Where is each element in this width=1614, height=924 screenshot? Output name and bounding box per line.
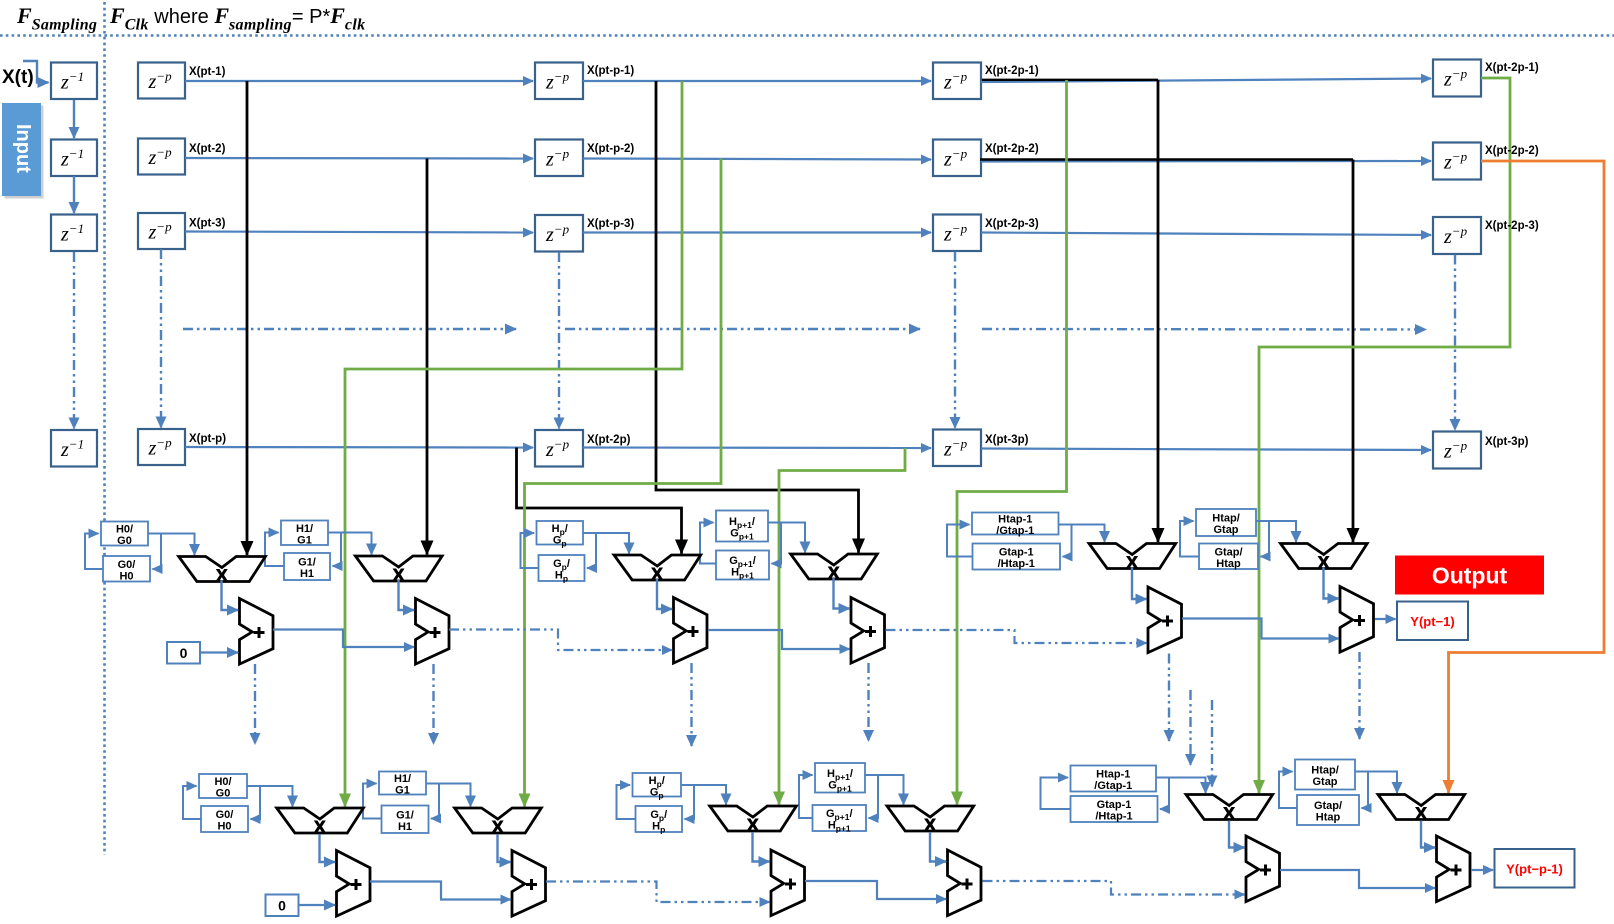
coefficient box Gtap-1/Htap-1 (top) [973, 544, 1061, 571]
coef pair 1 top feedback left [85, 534, 103, 570]
adder S5 [1148, 587, 1182, 653]
adder S3 [674, 598, 708, 664]
coef pair 3 bottom feedback right [681, 785, 694, 819]
dash-dot wire SB2 to SB3 [546, 882, 770, 903]
svg-text:X(pt-p-1): X(pt-p-1) [587, 65, 634, 77]
multiplier M4 [791, 554, 878, 582]
coef pair 6 top feedback right [1256, 521, 1269, 557]
coef pair 4 top feedback right [768, 523, 781, 564]
wire row3 C3 to D3 X(pt-2p-3) [981, 233, 1431, 236]
delay register Z2 (z^-1) [51, 140, 97, 177]
svg-text:H1: H1 [398, 821, 412, 833]
svg-text:Y(pt−p-1): Y(pt−p-1) [1506, 862, 1563, 877]
wire MB4 to SB4 [930, 832, 946, 862]
wire Htap-1/Gtap-1 to multiplier MB5 [1156, 778, 1206, 794]
dash-dot wire S3 down to bottom bank [690, 663, 692, 746]
wire H0/G0 to multiplier MB1 [247, 786, 293, 807]
coefficient box H0/G0 (top) [101, 522, 148, 548]
coefficient box Gtap/Htap (top) [1199, 544, 1258, 570]
black tap TA row1 to multiplier M4 [656, 81, 859, 553]
black tap T6 row2 to multiplier M6 [1352, 160, 1355, 543]
svg-text:Htap: Htap [1216, 558, 1241, 570]
wire M1 to S1 [222, 581, 239, 611]
dash-dot ellipsis wire into MB5 (a) [1189, 690, 1191, 765]
svg-text:X(pt-p): X(pt-p) [189, 433, 226, 445]
adder SB5 [1246, 836, 1280, 902]
coef pair 5 bottom feedback right [1156, 778, 1169, 810]
wire row3 A3 to B3 X(pt-3) [185, 232, 533, 233]
multiplier M3 [614, 555, 701, 583]
wire MB2 to SB2 [498, 834, 511, 862]
black tap wire row2 C2 output to tap T6 [980, 158, 1353, 160]
svg-text:Gtap: Gtap [1312, 776, 1337, 788]
dash-dot wire Z3 to Z4 (continuation) [73, 252, 75, 429]
wire M5 to S5 [1132, 568, 1147, 600]
delay block D1 (z^-p) [1433, 60, 1481, 97]
delay block B2 (z^-p) [535, 140, 583, 177]
svg-text:X(pt-2p-3): X(pt-2p-3) [1485, 220, 1539, 232]
output box Y(pt-p-1) [1495, 849, 1575, 888]
multiplier MB2 [455, 808, 542, 836]
wire H0/G0 to multiplier M1 [148, 534, 195, 556]
svg-text:/Htap-1: /Htap-1 [998, 558, 1035, 570]
delay block D4 (z^-p) [1433, 432, 1481, 469]
svg-text:X(pt-2p): X(pt-2p) [587, 434, 631, 446]
delay block A4 (z^-p) [138, 429, 185, 465]
wire S1 to S2 [273, 630, 414, 648]
wire row4 A4 to B4 X(pt-p) [185, 446, 533, 449]
coefficient box G0/H0 (top) [103, 556, 150, 582]
coefficient box H1/G1 (top) [281, 521, 328, 547]
coefficient box Hp+1/Gp+1 (bottom) [815, 763, 865, 793]
green tap G3 row4 to bottom multiplier MB3 [779, 448, 905, 805]
delay register Z3 (z^-1) [51, 215, 97, 252]
coefficient box Gp+1/Hp+1 (top) [716, 551, 769, 581]
wire row1 B1 to C1 X(pt-p-1) [583, 80, 931, 82]
delay block D2 (z^-p) [1433, 143, 1481, 180]
wire row1 C1 to D1 X(pt-2p-1) [981, 79, 1431, 83]
dash-dot ellipsis wire into MB5 (b) [1211, 700, 1213, 787]
svg-text:H0: H0 [217, 821, 231, 833]
svg-text:G1/: G1/ [396, 809, 414, 821]
coef pair 5 top feedback left [947, 525, 973, 557]
wire H1/G1 to multiplier M2 [328, 533, 372, 555]
wire MB6 to SB6 [1421, 821, 1435, 848]
green tap G2 row2 to bottom multiplier MB2 [525, 159, 722, 807]
black tap wire row1 C1 output to tap T5 [982, 79, 1158, 81]
svg-text:H0/: H0/ [116, 524, 133, 536]
adder SB1 [337, 851, 371, 917]
dash-dot wire S4 down to bottom bank [867, 663, 869, 741]
svg-text:X(pt-2p-3): X(pt-2p-3) [985, 218, 1039, 230]
dash-dot wire B3 to B4 [558, 252, 560, 429]
svg-text:G0: G0 [117, 535, 132, 547]
dash-dot wire SB4 to SB5 [983, 881, 1245, 895]
coef pair 2 top feedback left [265, 533, 284, 567]
multiplier MB1 [277, 808, 364, 836]
delay block C1 (z^-p) [933, 63, 981, 100]
delay block B3 (z^-p) [535, 215, 583, 252]
delay block B4 (z^-p) [535, 430, 583, 467]
wire Hp+1/Gp+1 to multiplier MB4 [865, 775, 904, 805]
wire MB1 to SB1 [320, 834, 336, 862]
svg-text:H0: H0 [119, 570, 133, 582]
svg-text:X: X [1415, 804, 1427, 823]
wire zero box to S1 [200, 651, 238, 653]
wire Hp/Gp to multiplier MB3 [681, 785, 726, 805]
svg-text:X(pt-2p-2): X(pt-2p-2) [1485, 145, 1539, 157]
adder SB4 [948, 850, 982, 916]
coef pair 5 bottom feedback left [1041, 778, 1071, 810]
wire row1 A1 to B1 X(pt-1) [185, 80, 533, 82]
wire X(t) input elbow into Z1 [23, 61, 49, 83]
vertical dotted domain separator [103, 2, 106, 855]
dash-dot wire S4 to S5 [886, 630, 1147, 643]
wire M6 to S6 [1324, 568, 1339, 599]
black tap T5 row1 to multiplier M5 [1157, 80, 1160, 542]
coefficient box H1/G1 (bottom) [379, 772, 426, 797]
adder SB6 [1437, 836, 1471, 902]
Output banner (red) [1395, 556, 1544, 595]
svg-text:Gtap/: Gtap/ [1314, 800, 1342, 812]
coefficient box Hp+1/Gp+1 (top) [716, 511, 768, 542]
delay register Z4 (z^-1) [51, 430, 97, 467]
coef pair 2 top feedback right [328, 533, 341, 567]
coefficient box G1/H1 (bottom) [382, 806, 429, 834]
coef pair 5 top feedback right [1059, 525, 1072, 557]
Input banner box [2, 103, 44, 199]
multiplier M1 [179, 557, 266, 585]
svg-text:0: 0 [180, 645, 188, 661]
svg-text:X(pt-p-3): X(pt-p-3) [587, 218, 634, 230]
coefficient box G0/H0 (bottom) [201, 806, 248, 833]
coefficient box H0/G0 (bottom) [199, 774, 247, 800]
wire SB3 to SB4 [805, 881, 946, 899]
wire Z2 to Z3 [73, 176, 75, 213]
wire row2 B2 to C2 X(pt-p-2) [583, 159, 931, 160]
orange tap D2 output to bottom multiplier MB6 [1449, 161, 1605, 793]
svg-text:/Htap-1: /Htap-1 [1095, 811, 1132, 823]
multiplier MB5 [1186, 795, 1273, 823]
dash-dot wire S5 down to bottom bank [1168, 654, 1170, 742]
svg-text:G1: G1 [297, 534, 312, 546]
multiplier M5 [1089, 544, 1176, 572]
svg-text:Htap/: Htap/ [1212, 513, 1240, 525]
coef pair 3 top feedback right [583, 533, 596, 568]
svg-text:X: X [747, 815, 759, 834]
svg-text:Gtap-1: Gtap-1 [1097, 799, 1132, 811]
green tap G4 row1 to bottom multiplier MB4 [957, 80, 1067, 805]
multiplier MB6 [1378, 795, 1465, 823]
adder S4 [851, 598, 885, 664]
svg-text:Htap/: Htap/ [1311, 765, 1339, 777]
svg-text:G1: G1 [395, 785, 410, 797]
svg-text:FClk where Fsampling= P*Fclk: FClk where Fsampling= P*Fclk [109, 3, 365, 34]
delay block C4 (z^-p) [933, 430, 981, 467]
wire row2 A2 to B2 X(pt-2) [185, 157, 533, 160]
delay block B1 (z^-p) [535, 63, 583, 100]
svg-text:G0/: G0/ [216, 809, 234, 821]
wire Hp+1/Gp+1 to multiplier M4 [768, 523, 805, 553]
coef pair 3 bottom feedback left [617, 785, 636, 819]
coef pair 6 bottom feedback right [1355, 772, 1368, 809]
svg-text:X: X [492, 817, 504, 836]
svg-text:Output: Output [1432, 563, 1508, 589]
svg-text:H1/: H1/ [394, 773, 411, 785]
multiplier M6 [1281, 544, 1368, 572]
dash-dot wire S2 down to bottom bank [432, 664, 434, 744]
delay block C3 (z^-p) [933, 215, 981, 252]
green tap G5 D1 output to bottom multiplier MB5 [1259, 78, 1510, 793]
zero constant box (bottom bank) [266, 895, 299, 917]
wire Z1 to Z2 [73, 100, 75, 138]
wire Htap/Gtap to multiplier M6 [1256, 521, 1296, 542]
svg-text:FSampling: FSampling [16, 3, 97, 34]
coef pair 3 top feedback left [521, 533, 539, 568]
svg-text:X(pt-3p): X(pt-3p) [1485, 436, 1529, 448]
delay block C2 (z^-p) [933, 140, 981, 177]
zero constant box (top bank) [167, 642, 200, 664]
dash-dot ellipsis row segment A-B [183, 328, 516, 330]
wire S5 to S6 [1182, 619, 1339, 639]
svg-text:X(t): X(t) [2, 67, 34, 88]
coef pair 2 bottom feedback left [363, 784, 382, 819]
coefficient box Gp+1/Hp+1 (bottom) [813, 805, 867, 834]
dash-dot wire D3 to D4 [1454, 255, 1456, 431]
wire row4 C4 to D4 X(pt-3p) [981, 449, 1431, 451]
wire SB5 to SB6 [1280, 870, 1435, 888]
coefficient box Gp/Hp (top) [539, 555, 585, 584]
coefficient box Htap-1/Gtap-1 (top) [972, 513, 1059, 538]
coef pair 4 bottom feedback right [865, 775, 878, 818]
coef pair 6 top feedback left [1180, 521, 1199, 557]
coef pair 2 bottom feedback right [426, 784, 439, 819]
svg-text:/Gtap-1: /Gtap-1 [996, 525, 1034, 537]
wire row3 B3 to C3 X(pt-p-3) [583, 231, 931, 233]
wire Htap/Gtap to multiplier MB6 [1355, 772, 1397, 794]
svg-text:H0/: H0/ [214, 776, 231, 788]
delay register Z1 (z^-1) [51, 63, 97, 100]
wire M3 to S3 [657, 579, 672, 609]
coef pair 4 bottom feedback left [799, 775, 813, 818]
wire S3 to S4 [708, 630, 850, 649]
multiplier MB3 [710, 806, 797, 834]
wire M2 to S2 [399, 580, 415, 610]
coef pair 4 top feedback left [700, 523, 716, 564]
black tap T1 row1 to multiplier M1 [246, 81, 249, 555]
svg-text:X: X [314, 817, 326, 836]
wire M4 to S4 [834, 578, 850, 609]
dash-dot wire S2 to S3 [449, 630, 672, 651]
dash-dot wire C3 to C4 [954, 252, 956, 429]
svg-text:X(pt-3p): X(pt-3p) [985, 434, 1029, 446]
svg-text:X: X [924, 815, 936, 834]
dash-dot wire S6 down to bottom bank [1358, 652, 1360, 739]
coefficient box G1/H1 (top) [284, 553, 330, 580]
green tap G1 row1 to bottom multiplier MB1 [345, 81, 682, 807]
wire SB6 to output Y(pt-p-1) [1471, 869, 1493, 871]
delay block A3 (z^-p) [138, 213, 185, 249]
wire zero box to SB1 [299, 904, 336, 906]
svg-text:Htap-1: Htap-1 [1096, 769, 1130, 781]
wire Hp/Gp to multiplier M3 [583, 533, 629, 554]
svg-text:Htap: Htap [1316, 812, 1341, 824]
coef pair 1 top feedback right [148, 534, 161, 570]
svg-text:Gtap/: Gtap/ [1214, 546, 1242, 558]
svg-text:G0/: G0/ [118, 559, 136, 571]
svg-text:G0: G0 [216, 788, 231, 800]
svg-text:Input: Input [12, 124, 34, 173]
wire S6 to output Y(pt-1) [1375, 618, 1396, 620]
svg-text:X(pt-3): X(pt-3) [189, 218, 226, 230]
coefficient box Hp/Gp (top) [537, 521, 584, 548]
svg-text:Gtap-1: Gtap-1 [999, 547, 1034, 559]
svg-text:X(pt-1): X(pt-1) [189, 66, 226, 78]
svg-text:X(pt-2p-1): X(pt-2p-1) [985, 65, 1039, 77]
coef pair 1 bottom feedback right [247, 786, 260, 819]
svg-text:X(pt-p-2): X(pt-p-2) [587, 143, 634, 155]
svg-text:Y(pt−1): Y(pt−1) [1410, 614, 1454, 629]
adder S2 [416, 599, 450, 665]
coef pair 6 bottom feedback left [1279, 772, 1297, 809]
adder SB3 [771, 850, 805, 916]
svg-text:X(pt-2p-2): X(pt-2p-2) [985, 143, 1039, 155]
wire H1/G1 to multiplier MB2 [426, 784, 471, 807]
svg-text:/Gtap-1: /Gtap-1 [1094, 780, 1132, 792]
wire MB5 to SB5 [1229, 821, 1245, 848]
svg-text:X(pt-2): X(pt-2) [189, 143, 226, 155]
coefficient box Gtap/Htap (bottom) [1297, 795, 1359, 825]
dash-dot wire S1 down to bottom bank [254, 664, 256, 744]
multiplier MB4 [887, 806, 974, 834]
delay block D3 (z^-p) [1433, 217, 1481, 254]
wire row2 C2 to D2 X(pt-2p-2) [981, 160, 1431, 163]
black tap TB row4 X(pt-2p) to multiplier M3 [517, 448, 682, 554]
multiplier M2 [355, 556, 442, 584]
wire Htap-1/Gtap-1 to multiplier M5 [1059, 525, 1105, 543]
delay block A1 (z^-p) [138, 63, 185, 99]
wire MB3 to SB3 [753, 832, 770, 862]
dash-dot ellipsis row segment C-D [982, 328, 1426, 331]
horizontal dotted clock-domain separator [0, 34, 1614, 37]
coefficient box Hp/Gp (bottom) [633, 773, 682, 800]
adder SB2 [512, 851, 546, 917]
svg-text:H1: H1 [300, 568, 314, 580]
dash-dot ellipsis row segment B-C [565, 328, 920, 330]
coef pair 1 bottom feedback left [183, 786, 201, 819]
coefficient box Htap/Gtap (bottom) [1295, 760, 1355, 790]
dash-dot wire A3 to A4 [160, 249, 162, 428]
svg-text:Gtap: Gtap [1213, 524, 1238, 536]
svg-text:0: 0 [278, 898, 286, 914]
coefficient box Htap-1/Gtap-1 (bottom) [1071, 766, 1157, 793]
wire row4 B4 to C4 X(pt-2p) [583, 446, 931, 449]
svg-text:X: X [1223, 804, 1235, 823]
output box Y(pt-1) [1397, 602, 1468, 641]
svg-text:H1/: H1/ [296, 523, 313, 535]
coefficient box Gp/Hp (bottom) [636, 806, 683, 835]
coefficient box Htap/Gtap (top) [1196, 509, 1256, 536]
black tap T2 row2 to multiplier M2 [426, 159, 429, 555]
delay block A2 (z^-p) [138, 139, 185, 175]
wire SB1 to SB2 [370, 882, 511, 900]
coefficient box Gtap-1/Htap-1 (bottom) [1071, 796, 1158, 823]
svg-text:X(pt-2p-1): X(pt-2p-1) [1485, 62, 1539, 74]
adder S6 [1340, 587, 1374, 653]
adder S1 [240, 599, 274, 665]
svg-text:Htap-1: Htap-1 [998, 514, 1032, 526]
svg-text:G1/: G1/ [298, 557, 316, 569]
